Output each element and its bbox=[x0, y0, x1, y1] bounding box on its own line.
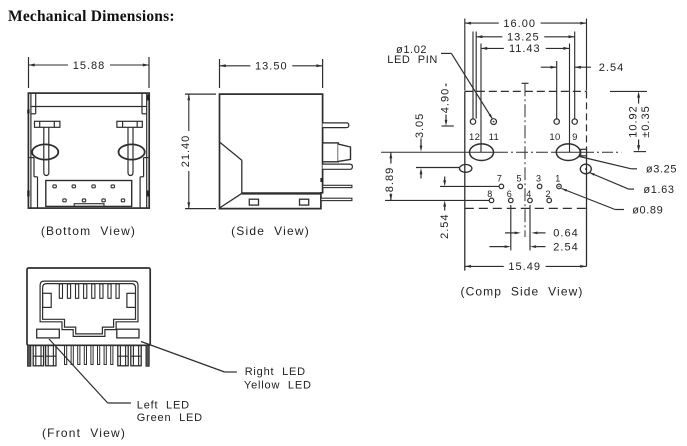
side view front chamfer bbox=[220, 142, 242, 208]
svg-text:3: 3 bbox=[536, 174, 542, 184]
dimension 15.88 (bottom view width) bbox=[29, 57, 150, 88]
left mounting hole (ellipse) bbox=[470, 144, 494, 161]
bottom view right ellipse bbox=[119, 144, 145, 159]
svg-text:Left LED: Left LED bbox=[137, 400, 190, 412]
left edge small hole bbox=[416, 165, 472, 173]
contact pins odd row 7 5 3 1 bbox=[499, 184, 561, 189]
svg-text:2.54: 2.54 bbox=[439, 213, 451, 238]
bottom view body outline bbox=[28, 93, 149, 208]
dimension 13.50 (side view width) bbox=[220, 59, 323, 88]
dimension 2.54 (left, pin rows) bbox=[439, 177, 451, 239]
leader ø0.89 bbox=[562, 189, 664, 217]
svg-text:12: 12 bbox=[469, 132, 480, 143]
bottom view left ellipse bbox=[32, 144, 58, 159]
svg-text:8: 8 bbox=[487, 189, 493, 199]
svg-text:Right LED: Right LED bbox=[245, 366, 306, 378]
front view left side latch bbox=[43, 293, 52, 307]
leader Right LED bbox=[141, 342, 237, 373]
horizontal centerline bbox=[381, 151, 621, 153]
svg-text:15.88: 15.88 bbox=[73, 60, 106, 72]
svg-text:Green LED: Green LED bbox=[137, 412, 203, 424]
svg-text:13.25: 13.25 bbox=[507, 32, 540, 44]
svg-text:9: 9 bbox=[572, 132, 578, 143]
leader ø1.63 bbox=[589, 173, 674, 196]
dimension 13.25 bbox=[476, 36, 502, 38]
side view lower pin bbox=[323, 185, 352, 187]
svg-text:2: 2 bbox=[545, 189, 551, 199]
bottom view left screw post (T-post) bbox=[35, 121, 60, 175]
svg-text:ø1.63: ø1.63 bbox=[643, 184, 674, 196]
svg-text:(Bottom View): (Bottom View) bbox=[41, 224, 136, 238]
front view outer shield bbox=[27, 268, 150, 345]
svg-text:ø0.89: ø0.89 bbox=[632, 204, 663, 216]
front view left LED window bbox=[37, 329, 60, 338]
svg-text:(Side View): (Side View) bbox=[231, 224, 310, 238]
side view middle pin bbox=[323, 164, 353, 169]
bottom view pin dots row 1 bbox=[53, 185, 115, 188]
pin labels 12 11 10 9 bbox=[469, 132, 578, 143]
bottom view contact plate bbox=[46, 181, 132, 207]
extension line pin rows (left) bbox=[385, 186, 499, 200]
front view right edge leg bbox=[146, 346, 149, 367]
bottom view right screw post (T-post) bbox=[117, 121, 142, 175]
dimension 15.49 bbox=[465, 265, 504, 267]
comp view right edge tab bbox=[581, 149, 587, 156]
bottom view edge hatch ticks bbox=[28, 95, 148, 197]
dimension 11.43 bbox=[481, 47, 504, 49]
LED pin 11 (with center dot) bbox=[491, 119, 497, 125]
front view contact teeth bbox=[59, 284, 119, 298]
svg-text:11: 11 bbox=[489, 132, 499, 143]
vertical centerline bbox=[522, 83, 529, 237]
side view bottom pin bbox=[321, 198, 352, 200]
svg-text:4.90: 4.90 bbox=[439, 88, 451, 113]
front view jack opening (double outline) bbox=[40, 281, 138, 336]
svg-text:16.00: 16.00 bbox=[503, 18, 536, 30]
comp view outline: left edge bbox=[464, 91, 466, 270]
LED pin 10 bbox=[554, 119, 559, 124]
bottom view pin dots row 2 bbox=[63, 199, 125, 202]
bottom view left inner profile bbox=[29, 107, 37, 209]
leader ø3.25 bbox=[580, 157, 678, 176]
LED pin 12 bbox=[470, 119, 475, 124]
svg-text:3.05: 3.05 bbox=[414, 113, 426, 138]
dimension 0.64 bbox=[505, 228, 579, 240]
front view right side latch bbox=[127, 293, 135, 307]
LED pin 9 bbox=[572, 119, 577, 124]
bottom view right inner profile bbox=[140, 107, 148, 209]
label Right LED / Yellow LED bbox=[244, 366, 312, 391]
side view edge notch bbox=[320, 178, 322, 182]
svg-text:8.89: 8.89 bbox=[384, 167, 396, 192]
side view board latch peg bbox=[323, 143, 351, 162]
comp view outline: bottom edge (dashed) bbox=[465, 207, 587, 209]
svg-text:LED PIN: LED PIN bbox=[387, 54, 438, 66]
front view left edge leg bbox=[28, 346, 31, 367]
label Left LED / Green LED bbox=[137, 400, 203, 425]
svg-text:10: 10 bbox=[549, 132, 560, 143]
comp view outline: top edge (dashed) bbox=[465, 90, 587, 92]
front view wide legs bbox=[33, 346, 141, 366]
pin number labels 7 5 3 1 bbox=[497, 174, 561, 184]
right mounting hole (ellipse) ø3.25 bbox=[556, 144, 580, 161]
dimension 16.00 bbox=[465, 22, 499, 24]
dimension 4.90 bbox=[439, 84, 453, 127]
svg-text:7: 7 bbox=[497, 174, 503, 184]
svg-text:ø3.25: ø3.25 bbox=[646, 164, 677, 176]
comp view outline: right edge bbox=[586, 91, 588, 266]
dimension 10.92 +/-0.35 bbox=[610, 91, 652, 151]
front view right LED window bbox=[117, 329, 139, 338]
side view body outline bbox=[220, 94, 323, 209]
svg-text:4: 4 bbox=[526, 189, 532, 199]
leader ø1.02 LED PIN bbox=[387, 44, 492, 119]
svg-text:2.54: 2.54 bbox=[553, 241, 578, 253]
pin number labels 8 6 4 2 bbox=[487, 189, 551, 199]
leader Left LED bbox=[49, 339, 131, 403]
svg-text:0.64: 0.64 bbox=[553, 228, 578, 240]
dimension 2.54 (bottom, pins 6-4) bbox=[490, 241, 579, 253]
svg-text:1: 1 bbox=[555, 174, 561, 184]
dimension 21.40 (side view height) bbox=[180, 94, 216, 209]
dimension 2.54 (pin 10 to 9) bbox=[541, 62, 624, 74]
svg-text:2.54: 2.54 bbox=[599, 62, 624, 74]
svg-text:13.50: 13.50 bbox=[255, 61, 288, 73]
contact pins even row 8 6 4 2 bbox=[489, 198, 551, 203]
svg-text:5: 5 bbox=[516, 174, 522, 184]
svg-text:(Front View): (Front View) bbox=[42, 426, 126, 440]
side view base square 1 bbox=[249, 199, 258, 205]
dimension 3.05 bbox=[414, 113, 426, 179]
svg-text:15.49: 15.49 bbox=[508, 261, 541, 273]
svg-text:Mechanical Dimensions:: Mechanical Dimensions: bbox=[8, 8, 175, 25]
svg-text:10.92: 10.92 bbox=[628, 105, 640, 138]
right edge small hole ø1.63 (with dot) bbox=[580, 164, 591, 174]
bottom view bottom tab bbox=[74, 204, 104, 207]
svg-text:11.43: 11.43 bbox=[509, 43, 541, 55]
svg-text:6: 6 bbox=[507, 189, 513, 199]
front view contact pin legs bbox=[65, 346, 113, 365]
side view top pin bbox=[323, 123, 349, 128]
svg-text:±0.35: ±0.35 bbox=[640, 105, 652, 137]
side view base square 2 bbox=[300, 199, 309, 205]
svg-text:(Comp Side View): (Comp Side View) bbox=[461, 285, 584, 299]
side view base inner line bbox=[242, 192, 321, 194]
dimension 8.89 bbox=[384, 152, 396, 200]
extension lines pins 6 and 4 (down) bbox=[511, 205, 530, 250]
svg-text:Yellow LED: Yellow LED bbox=[244, 379, 312, 391]
svg-text:21.40: 21.40 bbox=[180, 135, 192, 168]
comp view top extension lines bbox=[465, 19, 587, 153]
